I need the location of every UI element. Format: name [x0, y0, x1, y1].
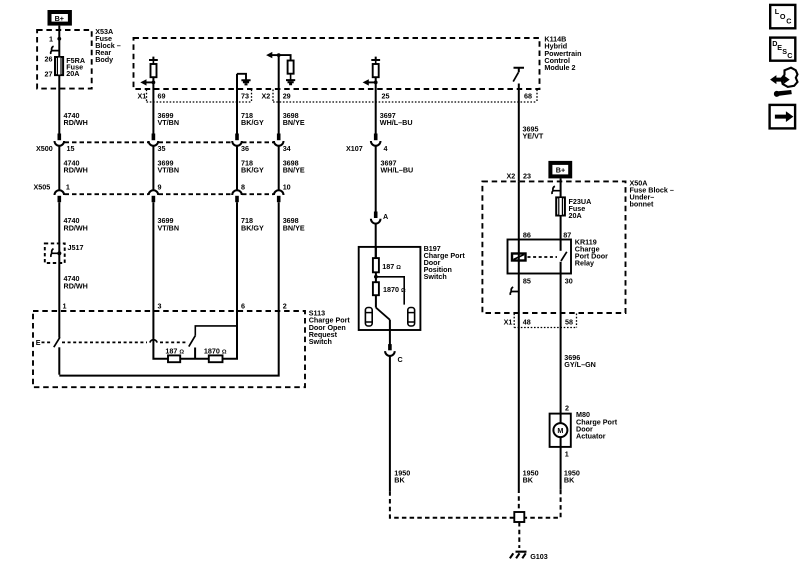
svg-text:2: 2: [565, 403, 569, 412]
svg-text:36: 36: [241, 144, 249, 153]
svg-text:J517: J517: [68, 243, 84, 252]
battery feed B+ (underbonnet): [550, 163, 570, 177]
svg-text:73: 73: [241, 91, 249, 100]
module driver output pin 25: supply T-bar: [371, 57, 380, 60]
svg-text:6: 6: [241, 302, 245, 311]
svg-text:1: 1: [63, 302, 67, 311]
svg-text:9: 9: [158, 182, 162, 191]
relay linkage dashed: [528, 256, 558, 258]
actuator M80 outline box: [550, 414, 571, 447]
svg-text:20A: 20A: [66, 69, 79, 78]
wire label 3698 BN/YE row A: [283, 111, 305, 127]
connector X505 terminal wire3: [232, 190, 242, 311]
wire label 3698 BN/YE row B: [283, 159, 305, 175]
svg-text:VT/BN: VT/BN: [158, 166, 180, 175]
wire 3698 BN/YE pin29 to X500: [278, 102, 280, 138]
wire 58 to M80: [560, 313, 562, 414]
svg-text:69: 69: [158, 91, 166, 100]
svg-text:23: 23: [523, 171, 531, 180]
svg-text:1: 1: [49, 35, 53, 44]
clip hook on pin 85 wire: [510, 287, 519, 295]
wire 3699 VT/BN pin69 to X500: [152, 102, 154, 138]
switch S113 label: [309, 309, 351, 346]
actuator M80 motor symbol: [553, 423, 567, 437]
svg-text:X2: X2: [262, 91, 271, 100]
wire label 718 BK/GY row B: [241, 159, 264, 175]
svg-text:B+: B+: [55, 14, 64, 23]
dashed wire splice to G103: [518, 522, 520, 548]
relay KR119 outline box: [508, 240, 572, 274]
S113 pivot arc on pin 3 wire: [150, 340, 157, 343]
svg-text:Switch: Switch: [424, 272, 447, 281]
legend icon DESC box: [770, 38, 795, 61]
connector X500 terminal wire2: [149, 134, 159, 190]
legend icon forward arrow box: [770, 105, 796, 128]
wire 3695 into coil pin 86: [518, 181, 520, 253]
svg-text:1: 1: [565, 450, 569, 459]
svg-text:25: 25: [382, 91, 390, 100]
dashed ground wire from relay 48 drop: [518, 489, 520, 512]
wire label 3699 VT/BN row A: [158, 111, 180, 127]
svg-text:C: C: [398, 355, 403, 364]
svg-text:C: C: [786, 17, 791, 26]
module connector strip X2 dotted: [273, 90, 537, 103]
fuse F23UA label: [569, 197, 592, 220]
connector X505 terminal wire4: [274, 190, 284, 311]
svg-text:Relay: Relay: [575, 259, 594, 268]
svg-text:BN/YE: BN/YE: [283, 118, 305, 127]
module internal switch pin 68: [513, 68, 524, 102]
dashed ground wire from M80 drop: [525, 490, 561, 518]
wire label 4740 RD/WH row D: [64, 274, 88, 290]
fuse F5RA value label: [66, 56, 85, 78]
wire label 3699 VT/BN row C: [158, 216, 180, 232]
wire 4740 RD/WH J517 to S113: [58, 252, 60, 338]
connector X500 terminal wire1: [55, 134, 65, 190]
S113 bottom rail wire: [59, 311, 278, 376]
module driver output pin 69: supply T-bar: [149, 57, 158, 60]
wire label 3696 GY/L-GN: [564, 353, 596, 369]
svg-text:85: 85: [523, 276, 531, 285]
svg-text:M: M: [557, 426, 563, 435]
wire switch to pin 30: [560, 262, 562, 313]
wire label 3699 VT/BN row B: [158, 159, 180, 175]
node pin 1 junction dot: [57, 37, 61, 41]
clip hook at fuse block X53A: [51, 46, 60, 54]
svg-text:Actuator: Actuator: [576, 432, 606, 441]
svg-text:Switch: Switch: [309, 337, 332, 346]
svg-text:58: 58: [565, 317, 573, 326]
S113 center contact stub: [194, 348, 196, 359]
switch B197 label: [424, 244, 466, 281]
ground splice junction box: [514, 512, 524, 522]
S113 selector blade: [189, 335, 196, 346]
svg-text:B+: B+: [556, 166, 565, 175]
resistor 187 ohm (B197): [373, 258, 379, 272]
svg-text:Body: Body: [95, 55, 113, 64]
svg-text:BK: BK: [523, 476, 534, 485]
svg-text:BN/YE: BN/YE: [283, 223, 305, 232]
wire M80 to ground drop: [560, 447, 562, 490]
connector X505 dashed line: [65, 193, 274, 195]
svg-text:20A: 20A: [569, 211, 582, 220]
svg-text:86: 86: [523, 230, 531, 239]
wire label 3697 WH/L-BU row A: [380, 111, 413, 127]
resistor 187 ohm (S113): [168, 355, 180, 362]
battery feed B+ (rear body): [50, 12, 70, 24]
svg-text:X1: X1: [138, 91, 147, 100]
junction node dot (B197): [374, 275, 378, 279]
wire label 3695 YE/VT: [523, 124, 544, 140]
car position icon right: [408, 308, 415, 327]
svg-text:X107: X107: [346, 144, 363, 153]
relay coil symbol: [512, 252, 526, 261]
fuse F23UA symbol: [556, 197, 565, 215]
svg-text:BK: BK: [394, 476, 405, 485]
svg-text:30: 30: [565, 276, 573, 285]
connector X107 terminal wire5: [371, 134, 381, 216]
module driver output pin 69: resistor element: [151, 64, 157, 77]
wire label 4740 RD/WH row A: [64, 111, 88, 127]
svg-text:WH/L–BU: WH/L–BU: [381, 166, 414, 175]
svg-text:BN/YE: BN/YE: [283, 166, 305, 175]
module driver output pin 25: resistor element: [373, 64, 379, 77]
switch S113 dashed outline: [33, 311, 305, 387]
svg-text:bonnet: bonnet: [630, 199, 655, 208]
svg-text:E: E: [36, 338, 41, 347]
wire label 1950 BK (B197 drop): [394, 469, 410, 485]
S113 mechanical linkage dashed: [42, 341, 189, 343]
wire label 718 BK/GY row C: [241, 216, 264, 232]
wire B+ to fuse F23UA: [560, 178, 562, 197]
svg-text:26: 26: [45, 55, 53, 64]
wire between resistors: [375, 272, 377, 282]
module K114B label: [544, 34, 581, 72]
relay KR119 label: [575, 237, 608, 267]
wire below 1870: [375, 295, 377, 307]
svg-text:C: C: [787, 51, 792, 60]
svg-text:34: 34: [283, 144, 291, 153]
svg-text:A: A: [383, 212, 388, 221]
svg-text:X2: X2: [507, 171, 516, 180]
svg-text:BK/GY: BK/GY: [241, 166, 264, 175]
wire label 718 BK/GY row A: [241, 111, 264, 127]
module driver output pin 25: stem to pin: [375, 77, 377, 102]
wire label 4740 RD/WH row B: [64, 159, 88, 175]
svg-text:BK/GY: BK/GY: [241, 118, 264, 127]
legend icon LOC box: [770, 5, 795, 28]
svg-text:2: 2: [283, 302, 287, 311]
S113 resistor chain rail: [153, 311, 237, 359]
B197 selector blade: [376, 308, 390, 320]
module internal ground pin 73: [237, 74, 251, 102]
wire 718 BK/GY pin73 to X500: [236, 102, 238, 138]
X1 connector strip dotted: [514, 314, 576, 328]
svg-text:29: 29: [283, 91, 291, 100]
module K114B dashed outline: [134, 38, 540, 89]
resistor 1870 ohm (B197): [373, 282, 379, 295]
clip hook below B+: [552, 186, 561, 194]
wire 3695 YE/VT pin68 to X2: [518, 102, 520, 181]
relay switch blade: [561, 252, 567, 261]
module connector strip X1 dotted: [147, 90, 252, 103]
svg-text:VT/BN: VT/BN: [158, 118, 180, 127]
svg-text:GY/L–GN: GY/L–GN: [564, 360, 596, 369]
svg-text:35: 35: [158, 144, 166, 153]
splice J517 dashed outline: [45, 243, 65, 263]
svg-text:BK/GY: BK/GY: [241, 223, 264, 232]
svg-text:Module 2: Module 2: [544, 63, 575, 72]
wire coil to pin 85: [518, 261, 520, 314]
svg-text:X505: X505: [34, 182, 51, 191]
car position icon left: [365, 308, 372, 327]
S113 switch E blade: [54, 337, 60, 347]
wire label 3697 WH/L-BU below X107: [381, 159, 414, 175]
fuse F5RA symbol: [55, 57, 63, 75]
svg-text:48: 48: [523, 317, 531, 326]
resistor 1870 ohm (S113): [209, 355, 223, 362]
module input pin 29: sense arrow and pull-up resistor to ground: [266, 52, 295, 102]
svg-text:WH/L–BU: WH/L–BU: [380, 118, 413, 127]
svg-text:G103: G103: [530, 552, 548, 561]
wire label 4740 RD/WH row C: [64, 216, 88, 232]
svg-text:1: 1: [66, 182, 70, 191]
svg-text:27: 27: [45, 69, 53, 78]
switch B197 outline box: [359, 247, 421, 330]
fuse block X50A label: [630, 178, 674, 208]
wire: B+ to fuse F5RA: [58, 26, 60, 57]
splice J517 junction dot: [57, 251, 61, 255]
wire from B197 to connector C: [389, 330, 391, 348]
fuse block X53A dashed outline: [37, 30, 92, 89]
svg-text:8: 8: [241, 182, 245, 191]
wire label 1950 BK (relay 48 drop): [523, 469, 539, 485]
fuse block X50A dashed outline: [482, 181, 625, 313]
S113 selector branch from pin 6: [195, 326, 237, 335]
dashed ground wire from B197 drop: [390, 491, 514, 518]
connector X500 dashed line: [65, 141, 274, 143]
module driver output pin 69: stem to pin: [152, 77, 154, 102]
actuator M80 label: [576, 410, 618, 440]
svg-text:YE/VT: YE/VT: [523, 132, 544, 141]
connector X505 terminal wire1: [55, 190, 65, 252]
wire through M80 box: [560, 414, 562, 424]
svg-text:68: 68: [524, 91, 532, 100]
branch to right contact: [376, 277, 404, 305]
svg-text:X1: X1: [504, 317, 513, 326]
svg-text:RD/WH: RD/WH: [64, 223, 88, 232]
svg-text:O: O: [780, 12, 786, 21]
svg-text:10: 10: [283, 182, 291, 191]
module driver output pin 25: control arrow: [367, 81, 375, 83]
wire 4740 RD/WH segment fuse to X500: [58, 75, 60, 138]
legend icon wiring/repair (arrow and wrench): [771, 68, 798, 97]
wire label 1950 BK (M80 drop): [564, 469, 580, 485]
svg-text:X500: X500: [36, 144, 53, 153]
connector A on wire 3697: [371, 212, 381, 259]
wire fuse to relay pin 87: [560, 216, 562, 251]
module driver output pin 69: control arrow: [145, 81, 153, 83]
svg-text:RD/WH: RD/WH: [64, 118, 88, 127]
ground G103 symbol: [510, 552, 527, 559]
svg-text:87: 87: [563, 230, 571, 239]
svg-text:15: 15: [67, 144, 75, 153]
B197 entry wire: [375, 247, 377, 258]
svg-text:4: 4: [384, 144, 388, 153]
connector X500 terminal wire4: [274, 134, 284, 190]
wire: E switch to bottom rail: [58, 347, 60, 374]
svg-text:RD/WH: RD/WH: [64, 281, 88, 290]
connector X505 terminal wire2: [149, 190, 159, 311]
splice J517 hook symbol: [51, 249, 59, 257]
fuse block X53A label: [95, 27, 121, 64]
connector X500 terminal wire3: [232, 134, 242, 190]
svg-text:BK: BK: [564, 476, 575, 485]
svg-text:3: 3: [158, 302, 162, 311]
wire 3697 WH/L-BU pin25 to X107: [375, 102, 377, 138]
connector C terminal: [385, 344, 395, 491]
svg-text:RD/WH: RD/WH: [64, 166, 88, 175]
wire label 3698 BN/YE row C: [283, 216, 305, 232]
wire 48 to splice: [518, 313, 520, 489]
svg-text:VT/BN: VT/BN: [158, 223, 180, 232]
B197 exit wire to box bottom: [389, 320, 391, 330]
